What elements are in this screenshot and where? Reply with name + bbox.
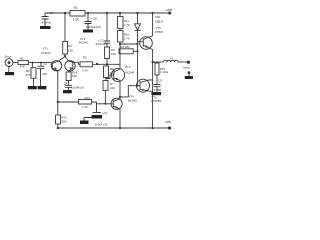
- svg-text:ВС546: ВС546: [126, 71, 135, 75]
- svg-text:Нагр.: Нагр.: [183, 66, 190, 70]
- svg-text:100uFх16: 100uFх16: [71, 85, 84, 89]
- svg-text:47uFх6: 47uFх6: [42, 21, 52, 25]
- svg-text:4.3Ом: 4.3Ом: [160, 70, 168, 74]
- svg-text:R8 680: R8 680: [121, 45, 131, 49]
- svg-text:КТ815: КТ815: [155, 30, 164, 34]
- svg-text:10К: 10К: [111, 52, 116, 56]
- svg-text:2.7К: 2.7К: [124, 23, 130, 27]
- svg-text:4.7К: 4.7К: [82, 105, 88, 109]
- svg-text:–30В: –30В: [164, 120, 171, 124]
- svg-text:220: 220: [110, 86, 115, 90]
- svg-text:→+30В: →+30В: [162, 8, 172, 12]
- svg-text:47К: 47К: [20, 65, 25, 69]
- svg-text:КТ818Б: КТ818Б: [151, 99, 161, 103]
- svg-text:С1: С1: [43, 62, 47, 66]
- svg-text:R5: R5: [83, 55, 87, 59]
- svg-text:1.2К: 1.2К: [73, 18, 79, 22]
- svg-text:+С7: +С7: [102, 111, 108, 115]
- svg-text:+ С8: + С8: [91, 17, 98, 21]
- svg-text:100uFх25: 100uFх25: [95, 122, 108, 126]
- svg-text:+ С3: + С3: [47, 11, 54, 15]
- svg-text:С9: С9: [158, 79, 162, 83]
- svg-text:VD1: VD1: [155, 15, 161, 19]
- svg-text:10К: 10К: [110, 71, 115, 75]
- svg-text:47uFх25: 47uFх25: [96, 42, 108, 46]
- svg-text:R12: R12: [85, 96, 91, 100]
- svg-text:ВС546: ВС546: [128, 99, 137, 103]
- svg-text:КТ3102: КТ3102: [41, 51, 51, 55]
- svg-text:L1: L1: [170, 55, 174, 59]
- svg-text:15К: 15К: [68, 48, 73, 52]
- svg-text:4.7К: 4.7К: [82, 68, 88, 72]
- svg-text:2.7К: 2.7К: [124, 37, 130, 41]
- svg-text:С4: С4: [64, 81, 68, 85]
- svg-text:220: 220: [42, 72, 47, 76]
- svg-text:47К: 47К: [25, 73, 30, 77]
- svg-text:R1: R1: [20, 56, 24, 60]
- svg-text:360: 360: [62, 120, 67, 124]
- svg-text:Вход: Вход: [5, 55, 12, 59]
- svg-text:VT3: VT3: [125, 65, 131, 69]
- svg-text:22К: 22К: [72, 74, 77, 78]
- svg-text:0.068: 0.068: [154, 88, 162, 92]
- svg-text:1500uFх25: 1500uFх25: [86, 25, 101, 29]
- svg-text:ВС546: ВС546: [79, 41, 88, 45]
- svg-text:R4: R4: [74, 6, 78, 10]
- svg-text:КД521: КД521: [155, 20, 164, 24]
